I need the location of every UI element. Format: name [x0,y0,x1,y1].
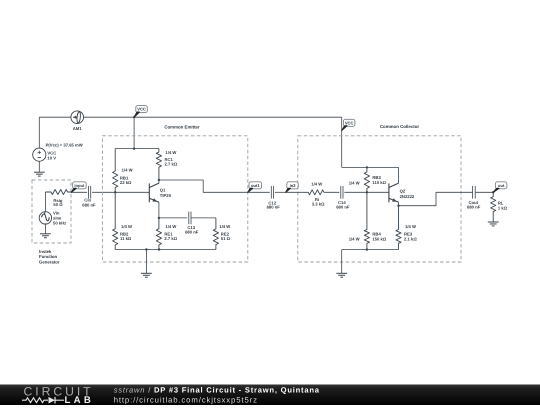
svg-text:110 kΩ: 110 kΩ [372,180,386,185]
svg-text:50 kHz: 50 kHz [53,221,66,226]
svg-text:Instek: Instek [39,249,52,254]
wire CE ground stem [145,250,147,274]
capacitor C14 680 nF [340,186,342,199]
wire in2 to Ri [286,191,308,193]
wire CC bottom rail [342,249,399,251]
node tag input [73,182,87,189]
node tag in2 [287,182,299,189]
svg-text:Common Emitter: Common Emitter [164,124,200,129]
wire C14 to Q2 base [344,191,389,193]
svg-text:LAB: LAB [65,395,95,405]
capacitor Cin 680 nF [88,186,90,199]
svg-text:1/4 W: 1/4 W [165,150,176,155]
node Q1 collector [158,179,160,181]
resistor Ri 3.3 k [308,190,340,195]
svg-text:10 V: 10 V [47,155,56,160]
svg-text:150 kΩ: 150 kΩ [372,237,386,242]
svg-text:51 Ω: 51 Ω [221,236,231,241]
wire collector to out1 [159,180,248,192]
svg-text:3.3 kΩ: 3.3 kΩ [312,202,325,207]
wire CE top rail [115,148,159,150]
svg-text:VCC: VCC [137,107,146,112]
node CE ground junction [145,248,147,250]
wire CC VCC rail [342,166,399,168]
node tag out [492,191,494,193]
wire emitter to C13 [159,217,187,219]
capacitor C13 680 nF [188,212,190,225]
svg-text:AM1: AM1 [73,126,83,131]
resistor RL 1 k [491,192,496,222]
svg-text:input: input [74,183,85,188]
ground below Vin [40,233,51,235]
wire VCC drop to CC stage [341,117,343,167]
svg-text:http://circuitlab.com/ckjtsxxp: http://circuitlab.com/ckjtsxxp5t5rz [114,395,258,404]
wire Q2 emitter to output [399,192,473,205]
node tag out1 [249,182,262,189]
dashed box function generator [32,180,71,243]
svg-text:Common Collector: Common Collector [380,124,420,129]
wire C13 to RE2 [191,217,216,219]
svg-text:2.7 kΩ: 2.7 kΩ [164,236,177,241]
wire Cout to out node [476,191,494,193]
svg-text:50 Ω: 50 Ω [53,202,63,207]
ground CC [336,272,347,274]
banner background [0,385,540,406]
svg-text:1/4 W: 1/4 W [311,181,322,186]
capacitor C12 680 nF [270,186,272,199]
svg-text:1/4 W: 1/4 W [349,237,360,242]
svg-text:Generator: Generator [39,259,60,264]
svg-text:680 nF: 680 nF [336,204,350,209]
wire CC ground stem [341,250,343,274]
resistor RE2 51 [213,218,218,250]
svg-text:1/4 W: 1/4 W [349,180,360,185]
wire VCC source to rail [38,117,40,148]
svg-text:in2: in2 [290,183,297,188]
svg-text:22 kΩ: 22 kΩ [120,180,132,185]
svg-text:VCC: VCC [345,120,354,125]
svg-text:2.7 kΩ: 2.7 kΩ [165,162,178,167]
wire Q1 collector stub [158,180,160,183]
resistor RE1 2.7 k [156,218,161,250]
svg-text:11 kΩ: 11 kΩ [120,236,132,241]
wire input to Cin [71,191,87,193]
resistor RB4 150 k [364,192,369,249]
svg-text:1/4 W: 1/4 W [405,224,416,229]
resistor RE3 2.1 k [396,206,401,250]
transistor Q2 2N2222 [389,183,399,202]
svg-text:1/4 W: 1/4 W [219,224,230,229]
wire VCC drop to CE stage [133,117,135,148]
svg-text:1/4 W: 1/4 W [122,168,133,173]
node CE rail junction [133,148,135,150]
svg-text:1/4 W: 1/4 W [121,224,132,229]
svg-text:2.1 kΩ: 2.1 kΩ [404,236,417,241]
svg-text:680 nF: 680 nF [467,204,481,209]
svg-text:P(Vcc) = 37.65 mW: P(Vcc) = 37.65 mW [46,142,83,147]
node RE1 bottom [158,248,160,250]
svg-text:out: out [498,183,505,188]
svg-text:sstrawn / DP #3 Final Circuit: sstrawn / DP #3 Final Circuit - Strawn, … [114,385,320,394]
dashed box common emitter [102,136,247,262]
wire CE bottom rail [115,249,216,251]
resistor Rsig 50 [45,190,71,195]
capacitor Cout 680 nF [472,186,474,199]
transistor Q1 TIP29 [149,183,159,202]
node RB3 top [366,166,368,168]
voltage source VCC 10 V [33,148,46,161]
node tag VCC 2 [343,119,355,126]
wire Q1 emitter down [158,202,160,218]
node Q1 emitter junction [158,217,160,219]
node Q2 emitter junction [398,202,400,205]
dashed box common collector [298,136,461,262]
node base junction [114,191,116,193]
svg-text:1/4 W: 1/4 W [165,224,176,229]
resistor RB2 11 k [113,192,118,249]
wire top VCC rail [39,116,71,118]
wire C12 to in2 [275,191,286,193]
node RB3 RB4 junction [366,191,368,193]
wire Vin to ground [44,224,46,234]
resistor RB3 110 k [364,167,369,192]
node RB4 bottom [366,248,368,250]
resistor RC1 2.7 k [156,149,161,181]
svg-text:1 kΩ: 1 kΩ [498,205,508,210]
source Vin sine [44,192,46,212]
svg-text:680 nF: 680 nF [82,202,96,207]
node tag VCC 1 [133,116,135,118]
svg-text:Function: Function [39,254,58,259]
svg-text:680 nF: 680 nF [185,230,199,235]
logo resistor diode squiggle [22,398,48,403]
ground CE [141,272,152,274]
svg-text:2N2222: 2N2222 [400,194,415,199]
wire Cin to Q1 base [92,191,149,193]
ammeter AM1 [71,111,84,124]
svg-text:TIP29: TIP29 [160,193,172,198]
wire Q2 collector to rail [398,167,400,183]
svg-text:out1: out1 [251,183,260,188]
ground below RL [488,221,499,223]
wire VCC source to ground [38,161,40,172]
wire out1 to C12 [248,191,270,193]
svg-text:680 nF: 680 nF [267,204,281,209]
resistor RB1 22 k [113,149,118,193]
ground below VCC source [34,171,45,173]
